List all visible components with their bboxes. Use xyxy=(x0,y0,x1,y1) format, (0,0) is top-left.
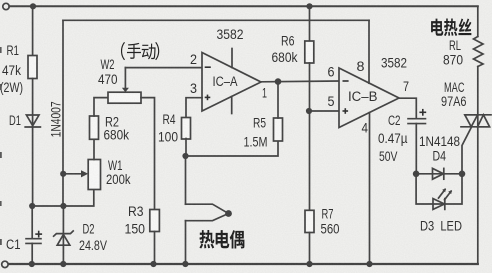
wire R5 row xyxy=(186,141,279,156)
label manual (手动) xyxy=(121,42,159,60)
wire R4 to junction xyxy=(185,139,187,157)
wire triac to rail xyxy=(477,115,479,264)
label heating wire 电热丝 xyxy=(431,18,471,36)
minus IC-A xyxy=(205,66,211,68)
wire node-row y206 xyxy=(32,190,94,207)
wire R5 top to output xyxy=(277,82,279,119)
terminal bottom-left xyxy=(2,261,8,267)
node rail junctions xyxy=(29,261,35,267)
wire RL branch xyxy=(477,6,479,36)
wire R1 to D1 xyxy=(32,79,34,128)
wire R2 top to W2 left xyxy=(94,98,108,116)
wire node to C1 xyxy=(31,206,33,238)
wire IC-A out to IC-B pin6 xyxy=(261,80,339,83)
wire C2 to D4 node xyxy=(415,124,417,174)
wire W1 top to R2 xyxy=(93,139,95,159)
thermocouple xyxy=(186,204,229,213)
label thermocouple 热电偶 xyxy=(199,230,244,249)
plus IC-B xyxy=(343,110,349,112)
wire D1 to node xyxy=(32,127,34,206)
wire IC-A V+ stub xyxy=(231,49,233,68)
wire pin5 xyxy=(309,110,339,112)
edge artifacts xyxy=(0,47,2,245)
terminal top-left xyxy=(3,3,9,9)
resistor RL zigzag xyxy=(474,37,484,67)
node R4-R5 junction xyxy=(182,153,188,159)
plus C2 xyxy=(419,111,426,113)
LED D3 xyxy=(416,174,445,204)
plus IC-A xyxy=(205,96,211,98)
wire W2 right to R3 xyxy=(141,98,155,210)
capacitor C2 xyxy=(408,118,426,120)
wire junction to thermocouple xyxy=(185,156,187,204)
wire top rail xyxy=(9,5,478,7)
op-amp input signs xyxy=(35,67,426,237)
node C1 top junction xyxy=(29,203,35,209)
wire R7 to rail xyxy=(309,233,311,265)
resistor R3 xyxy=(150,210,160,232)
wire RL to triac xyxy=(477,67,479,115)
node D4 left xyxy=(413,171,420,178)
wire pin8 xyxy=(368,20,370,83)
node top-left junction xyxy=(30,3,36,9)
capacitor C1 xyxy=(26,238,41,240)
zener D2 xyxy=(62,206,64,245)
wire pin4 to rail xyxy=(369,113,371,264)
diode D1 xyxy=(26,115,39,126)
resistor R7 xyxy=(305,210,314,232)
wire pin3 xyxy=(186,98,202,118)
plus C1 xyxy=(35,233,42,235)
wire R6 branch xyxy=(309,6,311,41)
node IC-A output junction xyxy=(275,78,282,85)
wire C1 to rail xyxy=(31,243,33,264)
LED D3 arrows xyxy=(439,190,446,199)
op-amp IC-A xyxy=(202,53,261,112)
wire bottom rail xyxy=(8,263,478,265)
wire pin2 xyxy=(125,67,202,69)
resistor R1 xyxy=(28,56,37,79)
wire R6 to R7 xyxy=(309,63,311,210)
node W1 wiper junction xyxy=(60,171,66,177)
node D4 right xyxy=(459,171,466,178)
node top R6 junction xyxy=(306,3,312,9)
resistor R2 xyxy=(90,116,99,139)
diode D4 xyxy=(416,173,444,175)
wire pin7 to C2 xyxy=(399,98,416,118)
resistor R5 xyxy=(274,118,283,141)
potentiometer W1 xyxy=(88,160,100,190)
node D2 top junction xyxy=(60,203,66,209)
resistor R6 xyxy=(305,41,314,63)
triac MAC97A6 xyxy=(465,114,491,116)
wire R3 to rail xyxy=(154,232,156,265)
wire supply rail y20 xyxy=(63,19,369,21)
wire W2 wiper to pin2 xyxy=(124,68,126,88)
wire left supply drop x63 xyxy=(62,20,64,206)
minus IC-B xyxy=(343,80,349,82)
resistor R4 xyxy=(182,118,191,140)
wire IC-A V- stub xyxy=(231,97,233,114)
wire thermocouple to rail xyxy=(185,221,187,264)
op-amp IC-B xyxy=(339,68,399,128)
wire triac gate xyxy=(462,127,472,174)
node pin5 junction xyxy=(306,108,312,114)
wire R1 branch down xyxy=(32,6,34,55)
potentiometer W2 xyxy=(108,92,141,103)
